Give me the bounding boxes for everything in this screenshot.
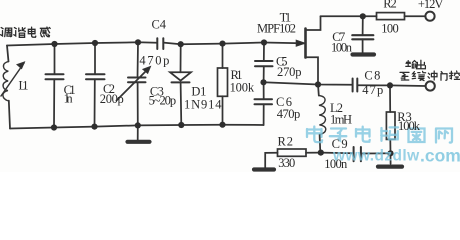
terminal output [426, 81, 435, 90]
inductor L2 [318, 85, 326, 153]
capacitor C5 [255, 43, 273, 83]
svg-text:470p: 470p [139, 53, 169, 67]
inductor L1 [3, 62, 9, 101]
wire top rail left segment [7, 42, 157, 45]
wire top rail right of C4 [164, 43, 265, 45]
char 谐 [14, 28, 26, 38]
char 门 [441, 72, 447, 81]
svg-text:47p: 47p [362, 83, 383, 97]
watermark [307, 127, 460, 166]
capacitor C7 [352, 16, 374, 54]
variable capacitor C3 [117, 42, 151, 125]
svg-text:R2: R2 [278, 135, 294, 149]
svg-text:330: 330 [278, 156, 295, 170]
char 感 [40, 27, 50, 37]
svg-text:MPF102: MPF102 [257, 21, 296, 35]
svg-text:100k: 100k [230, 81, 255, 95]
char 出 [416, 60, 425, 68]
chinese label: 至缓冲门控 (to buffer gate control) [400, 71, 460, 81]
svg-text:100: 100 [381, 21, 399, 35]
svg-text:1N914: 1N914 [184, 97, 222, 111]
char 至 [400, 72, 409, 80]
wire bottom rail [10, 125, 264, 129]
wire gate lead [264, 42, 301, 45]
char 电 [28, 27, 36, 37]
ground stub below C3 column [128, 125, 150, 141]
svg-text:1mH: 1mH [330, 113, 352, 127]
wire L2/C9 node to C9 [321, 152, 353, 155]
wire top right rail [321, 15, 377, 17]
capacitor C2 [86, 43, 105, 127]
wire C9 to R3 bottom node [361, 152, 391, 154]
svg-text:100n: 100n [324, 157, 348, 171]
capacitor C9 (series) [354, 147, 361, 161]
svg-text:L1: L1 [19, 78, 29, 92]
svg-text:C9: C9 [332, 137, 348, 151]
svg-text:+12V: +12V [418, 0, 444, 11]
transistor T1 (JFET) [296, 16, 320, 84]
capacitor C8 (series) [353, 79, 358, 92]
svg-text:100k: 100k [398, 119, 421, 133]
wire C8 to output [357, 84, 425, 87]
svg-text:200p: 200p [100, 92, 124, 106]
resistor R2 bottom [254, 149, 321, 170]
char 调 [1, 28, 12, 37]
char 冲 [428, 71, 437, 80]
char 输 [406, 61, 417, 68]
svg-text:D1: D1 [191, 84, 206, 98]
capacitor C4 (series in top rail) [157, 38, 163, 49]
resistor R1 [218, 44, 228, 125]
capacitor C1 [46, 44, 64, 128]
chinese label: 输出 (output) [406, 60, 426, 68]
arrow of L1 [1, 63, 24, 96]
svg-text:100n: 100n [331, 41, 353, 55]
svg-text:470p: 470p [277, 107, 301, 121]
char 缓 [412, 71, 425, 80]
diode D1 [170, 44, 191, 125]
char 控 [449, 71, 459, 79]
svg-text:C8: C8 [364, 69, 380, 83]
svg-text:R2: R2 [383, 0, 397, 11]
svg-text:C4: C4 [152, 17, 167, 31]
svg-text:.com: .com [420, 146, 460, 166]
svg-text:1n: 1n [64, 92, 74, 106]
svg-text:270p: 270p [277, 65, 302, 79]
resistor R2 top [377, 13, 405, 20]
wire R2 to +12V terminal [405, 15, 426, 17]
wire source node horizontal [264, 82, 352, 85]
chinese label: 调谐电感 (tuning inductance) [1, 27, 51, 37]
resistor R3 [378, 85, 402, 166]
svg-text:5~20p: 5~20p [149, 93, 177, 107]
wire left side vertical [7, 46, 9, 62]
terminal +12V [425, 12, 434, 21]
capacitor C6 [255, 82, 273, 125]
